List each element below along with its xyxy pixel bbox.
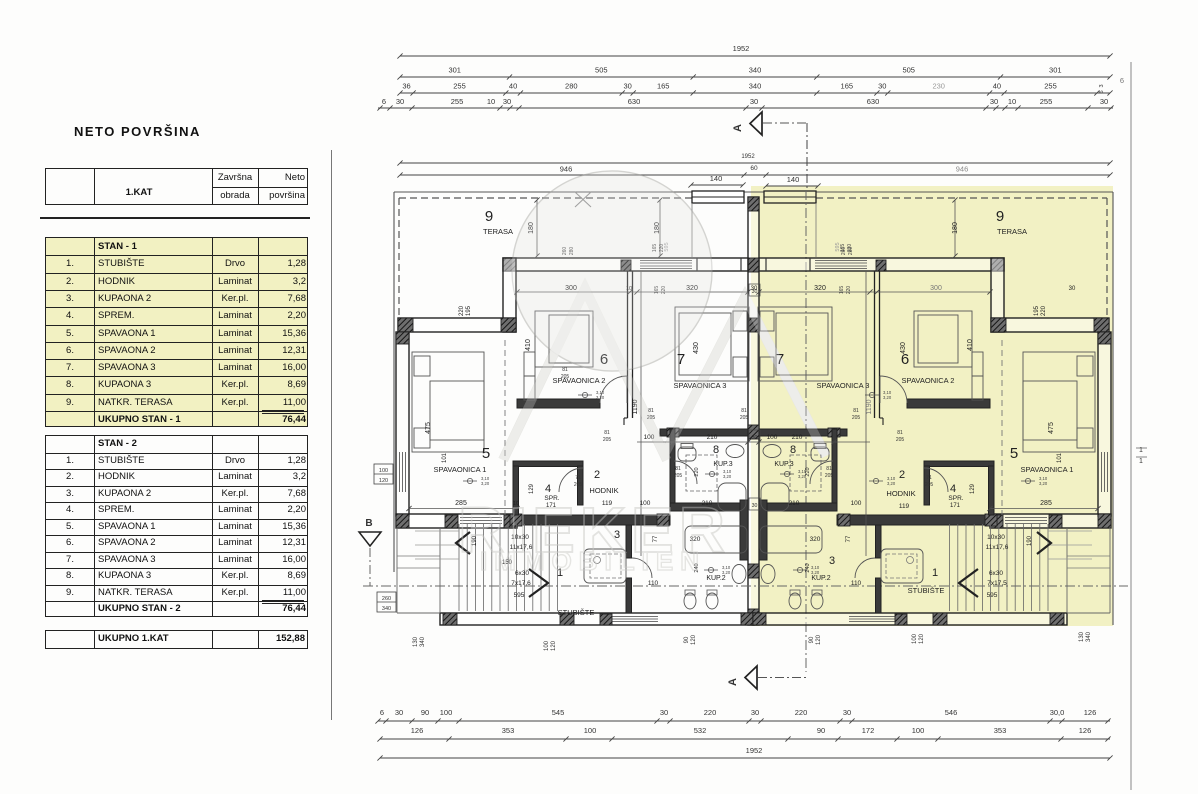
svg-text:475: 475 [425, 422, 432, 434]
svg-text:353: 353 [502, 726, 515, 735]
svg-text:205: 205 [896, 437, 905, 443]
svg-text:SPAVAONICA 2: SPAVAONICA 2 [902, 376, 955, 385]
bathtub kup2 left [685, 526, 747, 553]
svg-text:1190: 1190 [866, 399, 873, 414]
shower kup3 left [718, 483, 746, 511]
svg-text:81: 81 [604, 430, 610, 436]
dim line 285 room5 right [990, 508, 1098, 510]
bottom dimension row 2 [380, 738, 1110, 740]
svg-text:165: 165 [657, 82, 670, 91]
dimension 140 left slab [691, 184, 743, 186]
shower left [584, 549, 626, 583]
svg-text:230: 230 [932, 82, 945, 91]
svg-text:90: 90 [809, 636, 815, 643]
sink kup2 right [761, 565, 775, 584]
svg-text:3: 3 [829, 555, 835, 567]
svg-text:40: 40 [509, 82, 517, 91]
dimension row 6/30/255/10/30/630/30/630/30/10/255/30 [378, 107, 1113, 109]
svg-text:81: 81 [897, 430, 903, 436]
watermark circle [512, 171, 712, 371]
svg-text:3,20: 3,20 [723, 474, 732, 479]
svg-text:7x17,6: 7x17,6 [511, 580, 531, 587]
table title NETO POVRSINA [74, 124, 201, 139]
bathtub kup2 right [760, 526, 822, 553]
table UKUPNO 1.KAT [45, 630, 308, 649]
svg-text:30: 30 [752, 435, 758, 441]
svg-text:6x30: 6x30 [989, 570, 1003, 577]
divider line [40, 217, 310, 219]
stair landing lines left [415, 530, 459, 532]
svg-text:340: 340 [749, 66, 762, 75]
svg-text:532: 532 [694, 726, 707, 735]
svg-text:30: 30 [751, 708, 759, 717]
interior dim line y292 right [759, 291, 990, 293]
wall room6-room7 left [627, 271, 629, 418]
svg-text:30: 30 [752, 289, 758, 295]
svg-text:IMMOBILIEN: IMMOBILIEN [480, 546, 706, 576]
svg-text:165: 165 [839, 286, 845, 295]
storage room4 walls right [924, 461, 994, 467]
svg-text:30: 30 [1100, 97, 1108, 106]
exterior side wall right [1098, 332, 1111, 516]
svg-text:3,20: 3,20 [811, 570, 820, 575]
bed room5 right [1023, 352, 1095, 452]
kupaona3 wall right [832, 429, 837, 503]
window in bottom wall left [605, 616, 658, 618]
svg-text:129: 129 [970, 483, 976, 494]
svg-text:210: 210 [707, 434, 718, 441]
party wall between apartments [748, 197, 759, 625]
svg-text:30,0: 30,0 [1050, 708, 1065, 717]
svg-text:255: 255 [1040, 97, 1053, 106]
svg-text:210: 210 [789, 500, 800, 507]
svg-text:7: 7 [677, 351, 685, 368]
svg-text:946: 946 [560, 165, 573, 174]
svg-text:KUP.3: KUP.3 [774, 461, 793, 468]
svg-text:630: 630 [628, 97, 641, 106]
svg-text:946: 946 [956, 165, 969, 174]
svg-text:36: 36 [402, 82, 410, 91]
stair treads left [458, 524, 460, 611]
svg-text:6: 6 [1120, 76, 1124, 85]
svg-text:280: 280 [565, 82, 578, 91]
svg-text:10x30: 10x30 [987, 534, 1005, 541]
corridor bottom wall left [510, 515, 670, 525]
room6 bottom wall left [517, 399, 600, 408]
svg-text:5: 5 [1010, 445, 1018, 462]
svg-text:1952: 1952 [746, 746, 763, 755]
svg-text:30: 30 [750, 97, 758, 106]
svg-text:81: 81 [741, 408, 747, 414]
svg-text:60: 60 [750, 165, 758, 172]
svg-text:81: 81 [853, 408, 859, 414]
dimension 946/60/946 [400, 174, 1110, 176]
dimension row 36/255/40/280/30/165/340 ... [400, 92, 1110, 94]
svg-text:81: 81 [675, 466, 681, 472]
svg-text:30: 30 [503, 97, 511, 106]
svg-text:30: 30 [843, 708, 851, 717]
svg-text:205: 205 [603, 437, 612, 443]
toilet kup2 right [811, 593, 823, 609]
highlight right apartment (yellow) [751, 186, 1113, 626]
svg-text:3,20: 3,20 [722, 570, 731, 575]
entry steps area right [1066, 528, 1068, 613]
svg-text:220: 220 [704, 708, 717, 717]
svg-text:255: 255 [1044, 82, 1057, 91]
boxed label 100/120 left margin [374, 464, 393, 484]
wall under bedroom 5 right [990, 514, 1111, 528]
svg-text:10: 10 [1008, 97, 1016, 106]
svg-text:100: 100 [767, 434, 778, 441]
door arc room4 right [924, 468, 948, 492]
svg-text:81: 81 [826, 466, 832, 472]
svg-text:120: 120 [919, 633, 925, 644]
svg-text:A: A [732, 124, 744, 132]
section marker A bottom [745, 666, 757, 689]
svg-text:3,20: 3,20 [481, 481, 490, 486]
svg-text:1: 1 [932, 567, 938, 579]
svg-text:3: 3 [1099, 84, 1105, 87]
table STAN-1 [45, 237, 308, 427]
entrance slab left 140 [692, 191, 744, 203]
svg-text:HODNIK: HODNIK [886, 489, 915, 498]
svg-text:SPR.: SPR. [948, 495, 963, 502]
svg-text:126: 126 [411, 726, 424, 735]
svg-text:301: 301 [1049, 66, 1062, 75]
svg-text:81: 81 [562, 367, 568, 373]
sum underline STAN-2 [262, 600, 304, 604]
stair treads right [1047, 524, 1049, 611]
svg-text:430: 430 [693, 342, 700, 354]
svg-text:7x17,5: 7x17,5 [987, 580, 1007, 587]
svg-text:205: 205 [852, 415, 861, 421]
door arc room6 left [600, 376, 627, 403]
svg-text:30: 30 [752, 503, 758, 509]
plan outer boundary [394, 191, 1113, 193]
svg-text:190: 190 [1027, 535, 1033, 546]
svg-text:120: 120 [816, 634, 822, 645]
svg-text:3,20: 3,20 [883, 395, 892, 400]
svg-text:140: 140 [787, 175, 800, 184]
svg-text:30: 30 [1069, 286, 1076, 292]
terrace bottom wall right [991, 318, 1109, 332]
stair hall wall left [626, 525, 632, 558]
x mark survey point [575, 192, 591, 207]
sum underline STAN-1 [262, 410, 304, 414]
sheet edge line right [1130, 62, 1132, 790]
svg-text:101: 101 [442, 452, 448, 463]
lower-floor dashed edge right [1001, 340, 1003, 515]
svg-text:1952: 1952 [741, 154, 755, 160]
svg-text:340: 340 [420, 636, 426, 647]
svg-text:300: 300 [930, 285, 942, 292]
svg-text:220: 220 [795, 708, 808, 717]
svg-text:430: 430 [900, 342, 907, 354]
svg-text:8: 8 [790, 444, 796, 456]
svg-text:KUP.2: KUP.2 [706, 575, 725, 582]
svg-text:9: 9 [996, 208, 1004, 225]
bed room7 left [675, 307, 749, 381]
svg-text:165: 165 [841, 82, 854, 91]
svg-text:5: 5 [482, 445, 490, 462]
svg-text:255: 255 [453, 82, 466, 91]
corner wall terrace right [991, 258, 1004, 332]
dimension row 1952 (top) [400, 55, 1110, 57]
door arc kup3 left [674, 461, 697, 484]
kupaona3 bottom wall right [759, 503, 837, 511]
lower-floor dashed edge left [504, 340, 506, 515]
terrace depth dim lines 180 [536, 200, 538, 256]
bed room5 left [412, 352, 484, 452]
svg-text:130: 130 [1079, 631, 1085, 642]
section line A-A [805, 190, 807, 672]
svg-text:195: 195 [466, 305, 472, 316]
toilet kup2 left [684, 593, 696, 609]
svg-text:2: 2 [594, 469, 600, 481]
section line B-B [363, 585, 1128, 587]
bottom dimension row 1 [378, 720, 1110, 722]
svg-text:126: 126 [1079, 726, 1092, 735]
wardrobe room6 right [972, 352, 983, 376]
svg-text:B: B [365, 518, 372, 529]
svg-text:100: 100 [912, 633, 918, 644]
dim line 285 room5 left [409, 508, 517, 510]
kup2 core wall right [759, 500, 767, 560]
section marker A top [750, 112, 762, 135]
bottom exterior wall right [753, 613, 1067, 625]
stair landing lines right [1048, 530, 1092, 532]
svg-text:100: 100 [379, 468, 388, 474]
svg-text:100: 100 [912, 726, 925, 735]
entrance slab right 140 [764, 191, 816, 203]
separator vertical line [331, 150, 332, 720]
svg-text:6: 6 [380, 708, 384, 717]
window in side wall right [1107, 452, 1109, 492]
svg-text:220: 220 [847, 244, 853, 253]
svg-text:172: 172 [862, 726, 875, 735]
shower kup3 right [761, 483, 789, 511]
svg-text:285: 285 [1040, 500, 1052, 507]
top wall rooms 6-7 right [759, 258, 1004, 271]
svg-text:130: 130 [413, 636, 419, 647]
svg-text:410: 410 [525, 339, 532, 351]
wardrobe room6 left [524, 352, 535, 376]
entry door marks left [696, 258, 698, 271]
svg-text:475: 475 [1048, 422, 1055, 434]
svg-text:140: 140 [710, 174, 723, 183]
svg-text:205: 205 [574, 482, 583, 488]
svg-text:340: 340 [1086, 631, 1092, 642]
svg-text:320: 320 [810, 536, 821, 543]
svg-text:410: 410 [967, 339, 974, 351]
top wall rooms 6-7 left [503, 258, 748, 271]
vertical dim 1190 left [640, 271, 642, 556]
svg-text:1952: 1952 [733, 44, 750, 53]
svg-text:220: 220 [846, 286, 852, 295]
svg-text:11x17,6: 11x17,6 [986, 544, 1009, 551]
svg-text:220: 220 [459, 305, 465, 316]
svg-text:110: 110 [851, 580, 862, 587]
svg-text:595: 595 [835, 242, 841, 251]
svg-text:TERASA: TERASA [483, 227, 513, 236]
shower right [881, 549, 923, 583]
svg-text:120: 120 [551, 640, 557, 651]
svg-text:SPAVAONICA 3: SPAVAONICA 3 [817, 381, 870, 390]
svg-text:100: 100 [851, 500, 862, 507]
entrance recess lines [691, 203, 693, 257]
svg-text:180: 180 [952, 222, 959, 234]
window in wall under bedroom5 left [460, 517, 502, 519]
table header 1.KAT [45, 168, 308, 205]
svg-text:STUBIŠTE: STUBIŠTE [908, 586, 945, 595]
stair arrow up left [456, 532, 470, 554]
svg-text:595: 595 [987, 592, 998, 599]
room6 bottom wall right [907, 399, 990, 408]
svg-text:KUP.2: KUP.2 [811, 575, 830, 582]
svg-text:30: 30 [396, 97, 404, 106]
stair hall wall right [876, 525, 882, 558]
svg-text:9: 9 [485, 208, 493, 225]
terrace bottom wall left [398, 318, 516, 332]
svg-text:255: 255 [451, 97, 464, 106]
svg-text:100: 100 [584, 726, 597, 735]
svg-text:545: 545 [552, 708, 565, 717]
svg-text:SPAVAONICA 1: SPAVAONICA 1 [434, 465, 487, 474]
table STAN-2 [45, 435, 308, 617]
bottom exterior wall left [440, 613, 754, 625]
svg-text:220: 220 [1041, 305, 1047, 316]
svg-text:40: 40 [993, 82, 1001, 91]
entry door marks right [809, 258, 811, 271]
sink kup3 right [763, 445, 781, 458]
svg-text:119: 119 [899, 503, 910, 510]
svg-text:505: 505 [902, 66, 915, 75]
window in top wall right [815, 260, 867, 262]
corridor bottom wall right [837, 515, 997, 525]
svg-text:340: 340 [382, 606, 391, 612]
sink kup2 left [732, 565, 746, 584]
svg-text:6: 6 [382, 97, 386, 106]
interior dim line y292 left [517, 291, 748, 293]
svg-text:90: 90 [684, 636, 690, 643]
boxed label 260/340 left margin [377, 592, 396, 612]
entry steps area left [396, 528, 398, 613]
svg-text:546: 546 [945, 708, 958, 717]
svg-text:2: 2 [899, 469, 905, 481]
window in top wall left [640, 260, 692, 262]
svg-text:320: 320 [814, 285, 826, 292]
svg-text:77: 77 [846, 535, 852, 542]
svg-text:71: 71 [575, 475, 581, 481]
terrace dashed boundary [399, 197, 692, 199]
bed room6 right [914, 311, 972, 367]
boxed labels 30 at party wall [749, 284, 760, 296]
svg-text:110: 110 [648, 580, 659, 587]
kupaona3 bottom wall left [670, 503, 748, 511]
stair arrow up right [1037, 532, 1051, 554]
sink kup3 left [726, 445, 744, 458]
wall room6-room7 right [879, 271, 881, 418]
svg-text:30: 30 [990, 97, 998, 106]
svg-text:353: 353 [994, 726, 1007, 735]
svg-text:3,20: 3,20 [887, 481, 896, 486]
svg-text:4: 4 [950, 483, 956, 495]
svg-text:TERASA: TERASA [997, 227, 1027, 236]
room7 bottom wall right [759, 429, 847, 436]
svg-text:205: 205 [925, 482, 934, 488]
window in side wall left [399, 452, 401, 492]
svg-text:100: 100 [544, 640, 550, 651]
svg-text:101: 101 [1057, 452, 1063, 463]
level markers [582, 392, 587, 397]
door arc room6 right [880, 376, 907, 403]
svg-text:SPAVAONICA 1: SPAVAONICA 1 [1021, 465, 1074, 474]
corner wall terrace left [503, 258, 516, 332]
svg-text:1: 1 [1139, 458, 1143, 465]
svg-text:630: 630 [867, 97, 880, 106]
room7 bottom wall left [660, 429, 748, 436]
svg-text:90: 90 [421, 708, 429, 717]
svg-text:A: A [727, 678, 739, 686]
svg-text:120: 120 [691, 634, 697, 645]
bed room6 left [535, 311, 593, 367]
vertical dim 1190 right [865, 271, 867, 556]
svg-text:340: 340 [749, 82, 762, 91]
svg-text:30: 30 [624, 82, 632, 91]
svg-text:90: 90 [817, 726, 825, 735]
svg-text:260: 260 [382, 596, 391, 602]
svg-text:71: 71 [926, 475, 932, 481]
window in bottom wall right [849, 616, 902, 618]
svg-text:126: 126 [1084, 708, 1097, 717]
svg-text:129: 129 [529, 483, 535, 494]
window in wall under bedroom5 right [1005, 517, 1047, 519]
exterior side wall left [396, 332, 409, 516]
svg-text:100: 100 [440, 708, 453, 717]
svg-text:205: 205 [825, 473, 834, 479]
svg-text:595: 595 [514, 592, 525, 599]
door arc room4 left [559, 468, 583, 492]
wall under bedroom 5 left [396, 514, 517, 528]
svg-text:205: 205 [740, 415, 749, 421]
storage room4 walls left [513, 461, 583, 467]
svg-text:220: 220 [694, 467, 700, 476]
svg-text:505: 505 [595, 66, 608, 75]
toilet kup3 left [678, 447, 696, 461]
svg-text:10: 10 [487, 97, 495, 106]
svg-text:205: 205 [561, 374, 570, 380]
svg-text:30: 30 [660, 708, 668, 717]
svg-text:195: 195 [1034, 305, 1040, 316]
svg-text:120: 120 [379, 478, 388, 484]
svg-text:171: 171 [950, 503, 961, 509]
svg-text:3,20: 3,20 [798, 474, 807, 479]
watermark overlay (scan lightening) [458, 171, 826, 576]
kupaona3 wall left [670, 429, 675, 503]
dimension 140 right slab [766, 185, 818, 187]
dim line 100-210 left [637, 441, 748, 443]
svg-text:KUP.3: KUP.3 [713, 461, 732, 468]
svg-text:205: 205 [674, 473, 683, 479]
toilet kup3 right [811, 447, 829, 461]
svg-text:30: 30 [878, 82, 886, 91]
dim line 100-210 right [759, 441, 870, 443]
bed room7 right [758, 307, 832, 381]
kup2 core wall left [740, 500, 748, 560]
svg-text:30: 30 [395, 708, 403, 717]
svg-text:8: 8 [713, 444, 719, 456]
dimension row 301/505/340/505/301 [400, 76, 1110, 78]
